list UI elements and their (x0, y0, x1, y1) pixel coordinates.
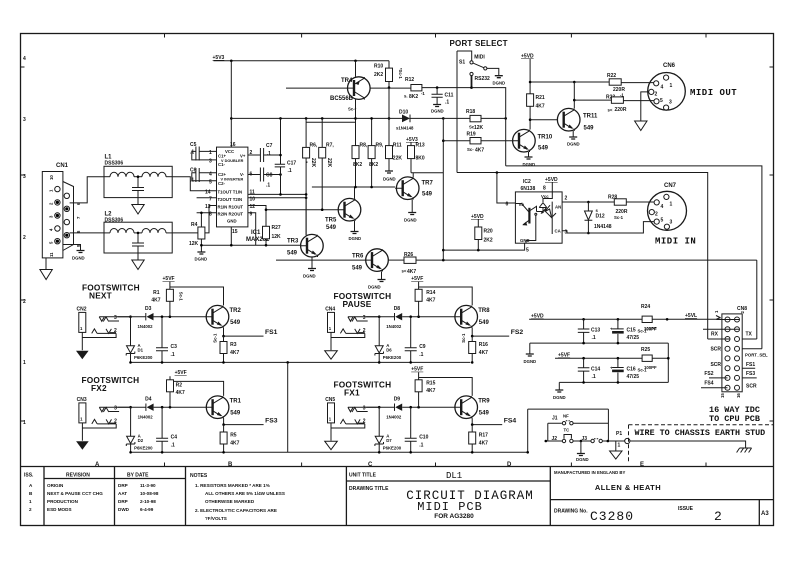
ground DGND C11 (431, 105, 444, 114)
svg-text:549: 549 (352, 266, 363, 272)
svg-text:CN7: CN7 (664, 183, 677, 189)
jumper J1 NF (548, 414, 609, 442)
svg-text:2: 2 (363, 419, 366, 425)
svg-text:DGND: DGND (195, 257, 208, 262)
svg-text:4K7: 4K7 (475, 148, 484, 154)
jack contacts CN5 (331, 407, 379, 428)
text 16 WAY IDC (709, 405, 760, 424)
diode D10 1N4148 (356, 110, 444, 131)
capacitor C5 .1 (190, 142, 217, 161)
svg-text:2: 2 (114, 419, 117, 425)
svg-text:1: 1 (23, 420, 26, 426)
svg-text:+5VD: +5VD (521, 54, 534, 60)
wire L1 to IC1 pin14 (172, 177, 216, 191)
svg-text:4K7: 4K7 (426, 388, 435, 394)
svg-text:DGND: DGND (72, 256, 85, 261)
wire TR5 base from R7 (266, 209, 338, 211)
resistor R25 100R (641, 347, 657, 370)
svg-text:1: 1 (29, 499, 32, 504)
svg-text:549: 549 (326, 225, 337, 231)
svg-text:MIDI: MIDI (474, 55, 485, 61)
svg-text:2K2: 2K2 (374, 72, 383, 78)
svg-text:1N4002: 1N4002 (138, 324, 154, 329)
wire to IC2 pin5 (443, 243, 524, 250)
svg-text:DRAWING No.: DRAWING No. (554, 509, 588, 515)
svg-text:ORIGIN: ORIGIN (47, 483, 64, 488)
wire GND bus pin15 R27 (201, 227, 271, 245)
svg-text:C11: C11 (445, 93, 454, 99)
frame zone tick marks (21, 34, 774, 467)
svg-text:Sc-1: Sc-1 (179, 292, 184, 302)
svg-text:C3: C3 (171, 344, 178, 350)
resistor R19 4K7 (443, 132, 512, 154)
zone labels left margin (23, 56, 26, 426)
svg-text:CN6: CN6 (663, 63, 676, 69)
transistor TR9 549 (455, 396, 490, 419)
resistor R9 8K2 (368, 117, 384, 187)
svg-text:C2-: C2- (218, 181, 225, 186)
wire +5VF rail (555, 357, 668, 359)
transzorb D6 P6KE200 (375, 317, 402, 363)
ground DGND TR7 (404, 213, 417, 223)
svg-text:R17: R17 (479, 433, 488, 439)
CN8 net labels left (704, 332, 721, 387)
wire IC1 pin12 to R27 (248, 206, 266, 227)
wire TR3 base (271, 244, 301, 246)
wire FS4 (472, 418, 502, 424)
svg-text:6N138: 6N138 (521, 186, 536, 192)
svg-text:TR4: TR4 (341, 78, 353, 84)
ground DGND TR11 (567, 137, 580, 147)
svg-text:ISS.: ISS. (24, 473, 34, 479)
ground DGND J2 (576, 441, 589, 462)
svg-text:R19: R19 (467, 132, 476, 138)
node +5V3 R13 (406, 137, 418, 143)
svg-text:TR6: TR6 (352, 254, 364, 260)
svg-text:4K7: 4K7 (151, 298, 160, 304)
svg-text:12K: 12K (474, 125, 484, 131)
footswitch FX2 title (82, 375, 140, 393)
svg-text:IC2: IC2 (523, 179, 531, 185)
svg-text:R15: R15 (426, 381, 435, 387)
capacitor C13 .1 (578, 319, 601, 343)
wire CN1 pin6 to L1 (70, 177, 104, 203)
wire footswitch ground rail upper (131, 361, 471, 363)
svg-text:TR8: TR8 (478, 308, 490, 314)
jumper area top wire (528, 409, 609, 452)
connector CN1 (42, 163, 81, 258)
wire IC1 pin11 (248, 193, 306, 195)
svg-text:11: 11 (49, 252, 54, 257)
svg-text:BY DATE: BY DATE (127, 473, 149, 479)
svg-text:R14: R14 (426, 290, 435, 296)
wire IC1 pin8 stub (197, 213, 217, 227)
svg-text:C7: C7 (266, 143, 273, 149)
zone labels bottom A-E (95, 462, 644, 468)
svg-text:PAUSE: PAUSE (343, 299, 372, 309)
resistor R6 22K (303, 118, 318, 235)
eyelet P1 (610, 431, 630, 459)
svg-text:22K: 22K (326, 158, 332, 168)
svg-text:R24: R24 (641, 304, 650, 310)
svg-text:DRP: DRP (118, 483, 128, 488)
wire footswitch ground rail lower (131, 451, 528, 453)
svg-text:12K: 12K (272, 234, 282, 240)
capacitor C8 .1 (248, 168, 282, 189)
svg-text:A3: A3 (761, 511, 769, 517)
svg-text:C14: C14 (591, 367, 600, 373)
svg-text:3: 3 (363, 315, 366, 321)
svg-text:220R: 220R (615, 107, 627, 113)
svg-text:MIDI IN: MIDI IN (655, 237, 696, 247)
svg-text:C4: C4 (171, 435, 178, 441)
wire IC2 pin2 out (562, 201, 654, 203)
svg-text:P6KE200: P6KE200 (383, 446, 402, 451)
svg-text:NF: NF (563, 414, 569, 419)
node +5VF decoupling (558, 353, 570, 359)
svg-text:VCC: VCC (225, 149, 234, 154)
svg-text:.1: .1 (171, 352, 175, 358)
svg-text:.1: .1 (171, 443, 175, 449)
svg-text:AAT: AAT (118, 491, 127, 496)
svg-text:DGND: DGND (493, 81, 506, 86)
dashed box wire to chassis earth stud (629, 425, 774, 462)
svg-text:15: 15 (720, 393, 725, 398)
connector CN6 MIDI OUT (648, 63, 738, 110)
svg-text:D12: D12 (596, 214, 605, 220)
resistor R27 12K (263, 225, 282, 240)
capacitor C17 .1 (275, 155, 297, 194)
svg-text:FX2: FX2 (91, 383, 107, 393)
transistor TR4 BC556B (286, 61, 370, 112)
resistor R13 8K0 (408, 142, 444, 177)
transzorb D7 P6KE200 (375, 407, 402, 452)
transzorb D2 P6KE200 (126, 407, 153, 452)
svg-text:DRP: DRP (118, 499, 128, 504)
svg-text:.1: .1 (267, 151, 271, 157)
svg-text:-1: -1 (421, 91, 425, 96)
svg-text:Sc-1: Sc-1 (213, 333, 218, 343)
svg-text:+5VF: +5VF (558, 353, 570, 359)
svg-text:P6KE200: P6KE200 (134, 446, 153, 451)
wire rail y172.5 to CN8 TX (457, 173, 708, 340)
svg-text:10-08-98: 10-08-98 (140, 491, 159, 496)
svg-text:+5VD: +5VD (531, 314, 544, 320)
svg-text:FS3: FS3 (746, 371, 755, 377)
transistor TR11 549 (530, 108, 598, 131)
svg-text:R13: R13 (416, 143, 425, 149)
svg-text:FS3: FS3 (265, 418, 278, 425)
svg-text:*Sc-1: *Sc-1 (398, 68, 403, 79)
svg-text:R16: R16 (479, 342, 488, 348)
wire rail link (287, 362, 289, 452)
svg-text:GND: GND (227, 219, 237, 224)
svg-text:DGND: DGND (567, 142, 580, 147)
svg-text:1N4002: 1N4002 (138, 415, 154, 420)
resistor R7 22K (319, 118, 335, 209)
wire TR7 collector (411, 200, 413, 213)
notes block (190, 473, 285, 521)
resistor R2 4K7 (167, 376, 224, 407)
svg-text:3: 3 (23, 117, 26, 123)
svg-text:DGND: DGND (368, 285, 381, 290)
capacitor C10 .1 (405, 407, 429, 452)
transistor TR8 549 (455, 305, 490, 328)
capacitor C16 47/25 electrolytic (610, 358, 647, 382)
capacitor C15 47/25 electrolytic (610, 319, 657, 343)
svg-text:CN4: CN4 (325, 307, 335, 313)
svg-text:+5VF: +5VF (163, 276, 175, 282)
svg-text:2: 2 (23, 235, 26, 241)
svg-text:549: 549 (230, 320, 241, 326)
svg-text:4: 4 (661, 85, 664, 91)
svg-text:BC556B: BC556B (330, 96, 354, 102)
node +5VF (163, 276, 175, 282)
diode D8 1N4002 (386, 306, 402, 329)
svg-text:CN1: CN1 (56, 163, 69, 169)
wire CN6 pin2 to ground (641, 92, 649, 121)
svg-text:AN: AN (555, 205, 561, 210)
svg-text:4K7: 4K7 (479, 441, 488, 447)
svg-text:C13: C13 (591, 328, 600, 334)
wire TR6 emitter (381, 271, 383, 279)
connector CN3 (76, 397, 89, 450)
svg-text:TO CPU PCB: TO CPU PCB (709, 414, 760, 424)
wire TR4 collector down (355, 99, 357, 145)
svg-text:.1: .1 (288, 168, 292, 174)
svg-text:DGND: DGND (303, 274, 316, 279)
wire C11 net to RS232 and P-SEL vertical (472, 88, 506, 166)
manufacturer cell (554, 470, 769, 524)
wire ground bus C13 C15 (530, 343, 669, 354)
svg-text:C9: C9 (419, 344, 426, 350)
wire S1 common down to MIDI-IN rail (456, 51, 458, 173)
resistor R22 220R (607, 73, 654, 93)
chassis ground below CN1 (40, 258, 52, 280)
svg-text:2: 2 (565, 196, 568, 202)
svg-text:UNIT TITLE: UNIT TITLE (349, 473, 377, 479)
ground chassis CN6 (635, 121, 647, 131)
resistor R21 4K7 (527, 94, 545, 130)
svg-text:T2OUT T2IN: T2OUT T2IN (218, 197, 243, 202)
svg-text:+5VF: +5VF (411, 367, 423, 373)
svg-text:R27: R27 (272, 225, 281, 231)
jack contacts CN4 (331, 317, 379, 338)
ground DGND bus2 (553, 390, 566, 400)
wire CN1 shell to DGND (63, 245, 81, 251)
capacitor C14 .1 (578, 358, 601, 382)
svg-text:S1: S1 (459, 60, 465, 66)
svg-text:C17: C17 (287, 161, 296, 167)
transistor TR6 549 (352, 249, 388, 272)
wire input node (366, 406, 455, 408)
svg-text:DGND: DGND (404, 218, 417, 223)
svg-text:+5VF: +5VF (175, 370, 187, 376)
svg-text:1: 1 (23, 360, 26, 366)
svg-text:D3: D3 (145, 306, 152, 312)
wire input node (366, 316, 455, 318)
svg-text:TR2: TR2 (230, 308, 242, 314)
svg-text:R26: R26 (404, 252, 413, 258)
svg-text:11-3-90: 11-3-90 (140, 483, 156, 488)
node +5VD R20 (471, 214, 484, 220)
connector CN5 (325, 397, 338, 450)
svg-text:RX: RX (711, 332, 719, 338)
svg-text:549: 549 (584, 126, 595, 132)
svg-text:OTHERWISE MARKED: OTHERWISE MARKED (205, 499, 255, 504)
svg-text:C1-: C1- (218, 162, 225, 167)
svg-text:47/25: 47/25 (627, 374, 640, 380)
wire TR5 emitter (354, 221, 356, 232)
svg-text:3: 3 (23, 174, 26, 180)
svg-text:V+: V+ (240, 154, 246, 159)
capacitor C4 .1 (156, 407, 177, 452)
resistor R3 4K7 (213, 333, 240, 363)
resistor R17 4K7 (469, 425, 488, 453)
svg-text:FS1: FS1 (746, 362, 755, 368)
svg-text:14: 14 (205, 189, 211, 195)
diode D4 1N4002 (138, 397, 154, 420)
svg-text:R5: R5 (230, 433, 237, 439)
wire pin16 drop (230, 61, 232, 147)
capacitor C6 .1 (190, 168, 217, 184)
resistor R15 4K7 (415, 372, 472, 407)
capacitor C3 .1 (156, 317, 177, 363)
transistor TR2 549 (206, 305, 241, 328)
svg-text:3: 3 (114, 406, 117, 412)
wire IC1 pin9 (248, 213, 256, 245)
svg-text:DGND: DGND (383, 177, 396, 182)
svg-text:2: 2 (114, 328, 117, 334)
ground DGND TR6 (368, 280, 386, 290)
svg-text:ALL OTHERS ARE 5% 1/4W UNLESS: ALL OTHERS ARE 5% 1/4W UNLESS (205, 491, 285, 496)
svg-text:J3: J3 (582, 436, 588, 442)
diode D12 1N4148 (585, 202, 612, 233)
svg-text:6-4-99: 6-4-99 (140, 507, 154, 512)
svg-text:5: 5 (661, 218, 664, 224)
svg-text:47/25: 47/25 (627, 335, 640, 341)
svg-text:2K2: 2K2 (484, 238, 493, 244)
svg-text:SCR: SCR (746, 384, 757, 390)
svg-text:+5VF: +5VF (411, 276, 423, 282)
svg-text:5: 5 (526, 248, 529, 254)
svg-text:+5VL: +5VL (685, 313, 697, 319)
wire IC2 pin6 (497, 173, 516, 204)
svg-text:R18: R18 (466, 109, 475, 115)
svg-text:TC: TC (564, 428, 570, 433)
svg-text:+5V3: +5V3 (213, 55, 225, 61)
svg-text:3: 3 (363, 406, 366, 412)
CN8 net labels right (745, 332, 768, 390)
svg-text:549: 549 (422, 192, 433, 198)
svg-text:8K2: 8K2 (369, 162, 378, 168)
wire input node (118, 316, 207, 318)
svg-text:TX: TX (746, 332, 753, 338)
svg-text:CN3: CN3 (77, 397, 87, 403)
svg-text:C8: C8 (266, 173, 273, 179)
capacitor C7 .1 (248, 143, 281, 162)
title block outline (21, 467, 774, 526)
svg-text:2. ELECTROLYTIC CAPACITORS AR: 2. ELECTROLYTIC CAPACITORS ARE (195, 508, 277, 513)
svg-text:C1+: C1+ (218, 154, 226, 159)
diode D3 1N4002 (138, 306, 154, 329)
wire ground bus C14 C16 (559, 382, 668, 390)
transistor TR7 549 (395, 177, 433, 200)
svg-text:J1: J1 (552, 416, 558, 422)
svg-text:D9: D9 (394, 397, 401, 403)
ground DGND TR10 (523, 157, 536, 167)
wire rail y165.9 to CN8 (506, 166, 762, 349)
svg-text:1: 1 (670, 83, 673, 89)
svg-text:CA: CA (555, 229, 561, 234)
svg-text:4K7: 4K7 (407, 269, 416, 275)
svg-text:R7,: R7, (326, 143, 334, 149)
svg-text:DSS306: DSS306 (105, 161, 124, 167)
svg-text:P1: P1 (616, 431, 622, 437)
svg-text:.1: .1 (592, 374, 596, 380)
footswitch NEXT title (82, 283, 140, 301)
svg-text:MANUFACTURED IN ENGLAND BY: MANUFACTURED IN ENGLAND BY (554, 470, 626, 475)
resistor R20 2K2 (475, 220, 493, 251)
svg-text:D7: D7 (386, 438, 392, 443)
svg-text:100PF: 100PF (644, 327, 657, 332)
resistor R11 22K (386, 143, 403, 172)
svg-text:FOOTSWITCH: FOOTSWITCH (334, 380, 392, 390)
connector CN8 16-way IDC (714, 306, 747, 398)
svg-text:R2IN R2OUT: R2IN R2OUT (218, 212, 244, 217)
svg-text:3: 3 (669, 100, 672, 106)
svg-text:NEXT: NEXT (89, 291, 112, 301)
svg-text:DGND: DGND (349, 236, 362, 241)
svg-text:Sc-1: Sc-1 (461, 333, 466, 343)
svg-text:V-: V- (240, 172, 245, 177)
svg-text:TR10: TR10 (538, 135, 553, 141)
node +5VD TR10 (521, 54, 534, 60)
svg-text:4K7: 4K7 (176, 390, 185, 396)
svg-text:2: 2 (714, 509, 722, 524)
svg-text:22K: 22K (310, 158, 316, 168)
ground DGND R11 (383, 171, 396, 182)
svg-text:1N4002: 1N4002 (386, 324, 402, 329)
svg-text:DGND: DGND (576, 457, 589, 462)
svg-text:4K7: 4K7 (230, 441, 239, 447)
resistor R26 4K7 (388, 252, 757, 275)
svg-text:D8: D8 (394, 306, 401, 312)
svg-text:R2: R2 (176, 383, 183, 389)
node +5VF (175, 370, 187, 376)
svg-text:?F/VOLTS: ?F/VOLTS (205, 516, 227, 521)
svg-text:TR5: TR5 (325, 218, 337, 224)
svg-text:1: 1 (670, 202, 673, 208)
svg-text:TR7: TR7 (422, 181, 434, 187)
svg-text:12K: 12K (189, 241, 199, 247)
svg-text:1: 1 (618, 443, 621, 449)
wire +5V3 rail (214, 60, 390, 62)
svg-text:6: 6 (506, 202, 509, 208)
svg-text:8K2: 8K2 (353, 162, 362, 168)
wire TR5 collector line (312, 187, 395, 199)
svg-text:FS4: FS4 (504, 418, 517, 425)
svg-text:22K: 22K (393, 156, 403, 162)
svg-text:549: 549 (479, 320, 490, 326)
ground chassis L1 (132, 198, 144, 214)
footswitch FX1 title (334, 380, 392, 398)
svg-text:T1OUT T1IN: T1OUT T1IN (218, 189, 243, 194)
svg-text:CN5: CN5 (325, 397, 335, 403)
ground DGND at CN1 (72, 251, 85, 261)
connector CN4 (325, 307, 338, 360)
svg-text:TR11: TR11 (583, 114, 598, 120)
